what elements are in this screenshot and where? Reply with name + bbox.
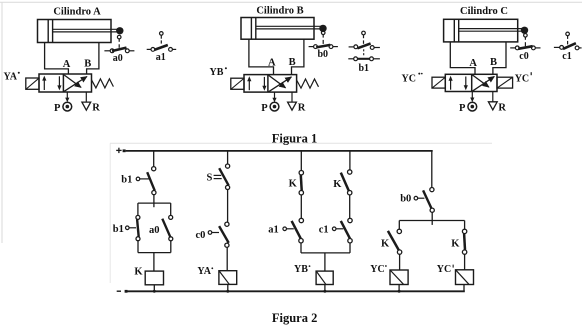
svg-text:K: K	[134, 267, 143, 278]
wire cylinder A port to valve A port A	[45, 43, 69, 75]
label Cilindro C	[460, 6, 508, 17]
contact K (closed, branch 3)	[299, 171, 303, 175]
cylinder B rod end ball	[319, 25, 326, 32]
contact c1 (NO)	[348, 218, 352, 222]
svg-text:YA: YA	[4, 72, 18, 83]
svg-text:Cilindro A: Cilindro A	[53, 6, 101, 17]
svg-text:P: P	[54, 103, 61, 114]
valve YB body	[244, 75, 297, 93]
wire K to c1	[349, 195, 351, 218]
svg-text:K: K	[451, 239, 460, 250]
valve YC body	[445, 74, 497, 91]
limit switch b0 (pressed)	[321, 31, 325, 35]
svg-text:Cilindro B: Cilindro B	[256, 6, 303, 17]
valve YA crossed arrow to R	[64, 75, 81, 87]
valve YB crossed arrow to R	[269, 75, 286, 87]
solenoid coil YC''	[390, 270, 408, 285]
branch 4 wire from top rail	[349, 151, 351, 170]
svg-text:b1: b1	[359, 63, 370, 74]
wire cylinder C port to valve C port B	[493, 42, 506, 74]
valve YA left-box up arrow	[43, 80, 45, 91]
wire cylinder C port to valve C port A	[450, 42, 475, 74]
label YC'' (left)	[402, 73, 423, 85]
top supply rail	[126, 150, 433, 152]
branch 3 wire from top rail	[300, 151, 302, 171]
wire S to c0	[227, 190, 229, 223]
svg-text:b0: b0	[400, 193, 411, 204]
contact a1 (NO)	[299, 218, 303, 222]
svg-text:b1: b1	[121, 175, 132, 186]
wire cylinder B port to valve B port B	[292, 39, 304, 74]
minus terminal	[117, 290, 121, 292]
valve YC left-box down arrow	[465, 77, 467, 87]
faint page left border	[1, 2, 3, 243]
wire c1 to merge	[349, 243, 351, 253]
wire to parallel section	[153, 195, 155, 203]
faint figura2 image left border	[109, 143, 111, 283]
valve YB crossed arrow to B	[269, 77, 292, 92]
wire to right K	[464, 221, 466, 230]
wire cylinder A port to valve A port B	[87, 43, 99, 75]
solenoid coil YC'	[456, 270, 474, 285]
label YA*	[4, 72, 20, 83]
port P (valve C): arrow and source circle	[471, 92, 473, 98]
cylinder C rod	[459, 28, 524, 30]
branch 1 wire from top rail	[153, 151, 155, 167]
svg-text:Figura 1: Figura 1	[272, 131, 317, 145]
cylinder A piston	[47, 20, 49, 42]
valve YA left-box down arrow	[58, 76, 60, 86]
contact K (closed, YC' branch)	[462, 229, 466, 233]
node B label (valve B)	[289, 57, 296, 68]
limit switch a1	[160, 32, 164, 36]
cylinder A rod	[53, 28, 119, 30]
branch 2 wire from top rail	[227, 151, 229, 164]
svg-text:YC: YC	[402, 74, 416, 85]
svg-text:b1: b1	[113, 224, 124, 235]
solenoid coil YB*	[316, 271, 333, 284]
svg-text:A: A	[469, 58, 477, 69]
contact c0 (NO)	[225, 222, 229, 226]
svg-text:c1: c1	[319, 225, 329, 236]
valve YA body	[39, 74, 92, 92]
solenoid YC left symbol	[432, 77, 445, 88]
svg-text:a0: a0	[113, 53, 123, 64]
split bar to two K contacts	[399, 220, 464, 222]
valve YA return spring	[92, 79, 114, 88]
wire b0 to split bar	[431, 212, 433, 225]
svg-text:K: K	[381, 239, 390, 250]
label YB*	[210, 67, 227, 78]
node A label (valve B)	[268, 58, 276, 69]
svg-text:K: K	[333, 179, 342, 190]
valve YB left-box up arrow	[248, 80, 250, 90]
svg-text:A: A	[63, 59, 71, 70]
svg-text:YB: YB	[294, 264, 308, 275]
svg-text:B: B	[490, 57, 497, 68]
cylinder B piston	[250, 18, 252, 39]
cylinder B body	[241, 18, 314, 40]
valve YC crossed arrow to R	[473, 75, 489, 87]
solenoid YA symbol	[26, 78, 39, 89]
contact K (NO, YC'' branch)	[397, 229, 401, 233]
svg-text:YA: YA	[197, 266, 211, 277]
label Cilindro B	[256, 6, 303, 17]
port P (valve A): arrow and source circle	[66, 92, 68, 98]
svg-text:Figura 2: Figura 2	[272, 311, 317, 325]
svg-text:Cilindro C: Cilindro C	[460, 6, 508, 17]
svg-text:c1: c1	[562, 51, 571, 62]
valve YB return spring	[297, 79, 319, 88]
cylinder C body	[444, 19, 518, 42]
parallel section top bar	[138, 202, 171, 204]
plus terminal	[116, 149, 121, 151]
valve YC crossed arrow to B	[473, 77, 495, 92]
svg-text:a0: a0	[149, 225, 160, 236]
solenoid coil YA*	[219, 271, 237, 285]
contact b1 (NO, series)	[152, 167, 156, 171]
svg-text:YC: YC	[437, 264, 451, 275]
contact b1 (closed, parallel-left)	[137, 203, 139, 215]
wire coil YC' to bottom rail corner	[463, 285, 465, 292]
faint page top border	[0, 1, 582, 3]
svg-text:B: B	[289, 57, 296, 68]
svg-text:c0: c0	[519, 51, 528, 62]
wire K to a1	[300, 195, 302, 218]
wire to left K	[398, 221, 400, 230]
pushbutton S (NO)	[226, 164, 230, 168]
cylinder A rod end ball	[116, 27, 123, 34]
wire to coil K	[153, 253, 155, 272]
port R (valve C): exhaust triangle	[492, 92, 494, 102]
cylinder B rod	[256, 25, 322, 27]
branch 5: rail corner down to b0	[431, 151, 433, 188]
svg-text:a1: a1	[268, 225, 279, 236]
svg-text:B: B	[84, 59, 91, 70]
svg-text:R: R	[498, 102, 506, 113]
svg-text:K: K	[289, 178, 298, 189]
cylinder A body	[38, 20, 112, 43]
label YC' (right)	[515, 72, 532, 84]
node B label (valve A)	[84, 59, 91, 70]
svg-text:R: R	[92, 103, 100, 114]
svg-text:A: A	[268, 58, 276, 69]
port P (valve B): arrow and source circle	[274, 92, 276, 98]
svg-text:b0: b0	[318, 49, 329, 60]
valve YC left-box up arrow	[450, 80, 452, 90]
cylinder C piston	[453, 20, 455, 42]
merge bar branches 3+4	[301, 252, 350, 254]
limit switch c0 (pressed)	[524, 34, 528, 38]
contact a0 (NO, parallel-right)	[170, 203, 172, 215]
label Cilindro A	[53, 6, 101, 17]
contact b0 (NO)	[430, 188, 434, 192]
port R (valve A): exhaust triangle	[85, 92, 87, 102]
limit switch c1	[566, 32, 570, 36]
limit switch b1 (changeover)	[362, 31, 366, 35]
svg-text:P: P	[261, 103, 268, 114]
parallel section bottom bar	[138, 252, 171, 254]
node B label (valve C)	[490, 57, 497, 68]
svg-text:c0: c0	[196, 230, 206, 241]
bottom return rail	[126, 290, 465, 292]
wire a1 to merge	[300, 243, 302, 253]
svg-text:YB: YB	[210, 67, 224, 78]
svg-text:a1: a1	[156, 52, 166, 63]
wire cylinder B port to valve B port A	[249, 39, 274, 74]
port R (valve B): exhaust triangle	[291, 92, 293, 102]
relay coil K	[145, 271, 163, 285]
svg-text:S: S	[207, 173, 213, 184]
valve YA crossed arrow to B	[64, 77, 87, 92]
faint figura2 image top border	[110, 142, 492, 144]
solenoid YC right symbol	[497, 77, 513, 88]
node A label (valve A)	[63, 59, 71, 70]
wire c0 to coil YA	[226, 247, 228, 270]
node A label (valve C)	[469, 58, 477, 69]
svg-text:R: R	[298, 103, 306, 114]
valve YB left-box down arrow	[263, 77, 265, 87]
svg-text:YC: YC	[370, 264, 384, 275]
svg-text:YC: YC	[515, 74, 529, 85]
solenoid YB symbol	[231, 78, 244, 89]
limit switch a0 (pressed)	[117, 35, 121, 39]
contact K (NO, branch 4)	[348, 170, 352, 174]
svg-text:P: P	[459, 103, 466, 114]
cylinder C rod end ball	[521, 27, 528, 34]
